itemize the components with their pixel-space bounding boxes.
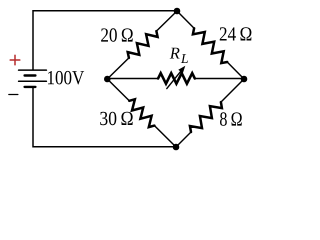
label 8Ω: [220, 112, 227, 126]
label 24Ω: [220, 27, 227, 40]
resistor 30Ω (left node to bottom node): [107, 79, 129, 101]
resistor 20Ω (left node to top node): [107, 58, 129, 79]
battery + terminal: [10, 59, 20, 61]
resistor RL (variable, left node to right node): [107, 78, 158, 80]
wire left rail (battery bottom lead) and bottom rail: [33, 87, 176, 147]
node bottom junction dot: [173, 144, 180, 151]
node right junction dot: [241, 76, 248, 83]
node left junction dot: [104, 76, 111, 83]
label 20Ω: [101, 28, 108, 41]
label 30Ω: [100, 112, 107, 125]
label RL (load resistor): [170, 48, 180, 59]
arrow of variable resistor RL: [167, 68, 183, 88]
resistor 8Ω (bottom node to right node): [176, 132, 191, 147]
node top junction dot: [174, 8, 181, 15]
battery V1 100V: [19, 69, 47, 71]
battery - terminal: [9, 94, 18, 96]
resistor 24Ω (top node to right node): [177, 11, 194, 28]
label 100V (battery value): [48, 71, 54, 84]
circuit schematic: Wheatstone bridge with 100V source and load RL: [0, 0, 264, 158]
wire top rail and left rail (battery top lead): [33, 11, 177, 70]
